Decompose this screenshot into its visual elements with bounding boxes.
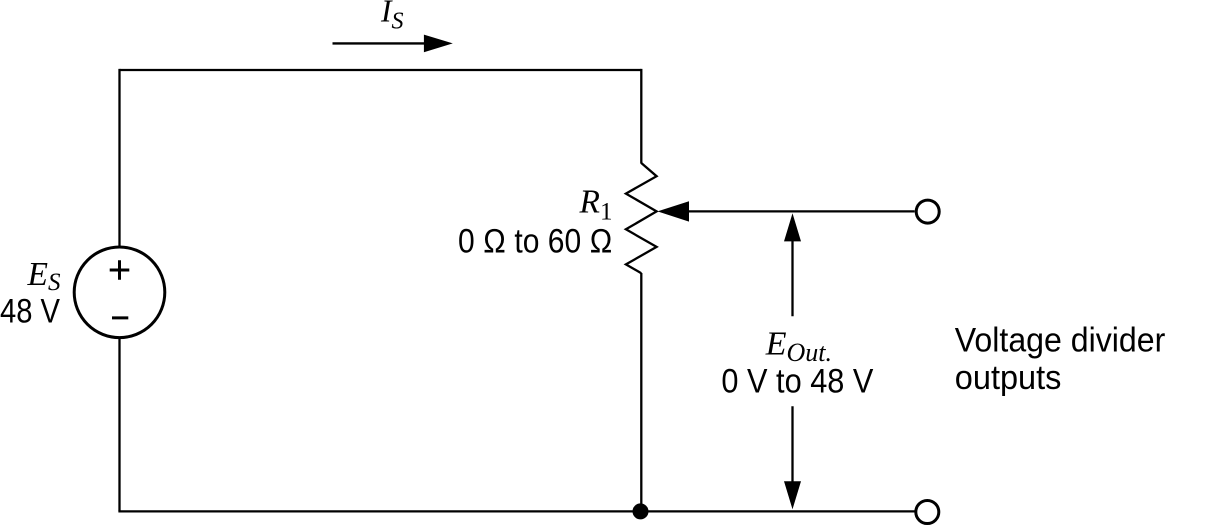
wire right vertical upper — [640, 69, 642, 164]
svg-text:R1: R1 — [579, 183, 613, 225]
terminal circle top — [916, 200, 939, 223]
voltage source E_S circle — [74, 247, 165, 338]
svg-text:Voltage divider: Voltage divider — [955, 321, 1166, 359]
svg-text:IS: IS — [380, 0, 404, 34]
svg-text:0 V to 48 V: 0 V to 48 V — [721, 363, 873, 401]
svg-text:EOut.: EOut. — [765, 325, 832, 367]
current arrow I_S — [333, 42, 427, 44]
svg-text:48 V: 48 V — [0, 293, 60, 331]
svg-text:outputs: outputs — [955, 359, 1062, 397]
wire top horizontal — [120, 69, 642, 71]
minus sign — [112, 316, 128, 319]
wire left vertical upper — [118, 69, 120, 248]
svg-text:0 Ω to 60 Ω: 0 Ω to 60 Ω — [458, 223, 613, 261]
wire right vertical lower — [640, 273, 642, 511]
plus sign — [110, 260, 130, 280]
E_Out arrow upper segment — [791, 238, 793, 316]
terminal circle bottom — [916, 501, 939, 524]
wire left vertical lower — [118, 337, 120, 511]
wiper arrow wire — [687, 210, 915, 212]
junction dot — [633, 503, 649, 519]
svg-text:ES: ES — [27, 256, 61, 296]
E_Out arrow lower segment — [791, 406, 793, 482]
wiper arrowhead — [658, 201, 690, 221]
wire bottom horizontal — [118, 510, 914, 512]
resistor R1 potentiometer zigzag — [626, 163, 657, 273]
